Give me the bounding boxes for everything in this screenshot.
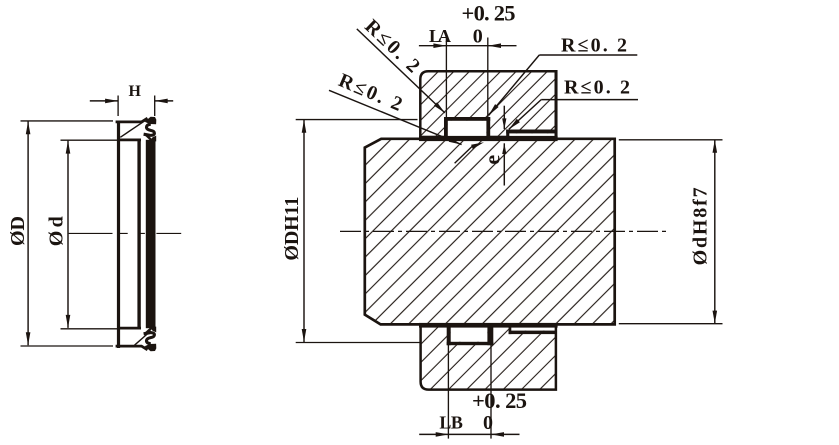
seal bottom cap (mirrored)	[116, 327, 157, 352]
roughness leader R3 underline	[539, 54, 637, 56]
seal top cap inner line	[118, 138, 141, 141]
roughness leader R3 arrowhead	[489, 104, 499, 115]
seal top cap lip beak	[145, 117, 157, 125]
bottom joint band	[419, 323, 558, 328]
roughness leader R2 arrowhead	[449, 138, 462, 145]
groove corner mark arrowhead	[471, 142, 484, 149]
dimension H left witness line	[117, 96, 119, 117]
dimension ØdH8f7 top arrowhead	[713, 140, 718, 153]
svg-text:R≤0. 2: R≤0. 2	[360, 15, 424, 77]
bottom gland block	[421, 326, 556, 390]
rod block	[365, 139, 615, 325]
dimension LA left arrowhead	[433, 43, 446, 48]
svg-text:LA: LA	[429, 26, 451, 46]
top joint band	[419, 136, 558, 141]
seal top cap lip S-curl	[144, 124, 155, 135]
dimension H line right segment	[155, 100, 174, 102]
dimension ØdH8f7 bottom arrowhead	[713, 311, 718, 324]
bottom gland groove floor line	[447, 342, 494, 345]
dimension LB right arrowhead	[491, 432, 504, 437]
dimension H left arrowhead	[105, 99, 118, 104]
top gland groove cavity	[448, 121, 487, 137]
bottom gland groove left wall	[447, 327, 451, 345]
top gland groove ceiling line	[444, 117, 490, 121]
dimension ØD bottom extension line	[21, 345, 114, 347]
dimension ØDH11 line	[303, 120, 305, 342]
dimension LB right extension line	[490, 344, 492, 439]
roughness leader R1 arrowhead	[434, 102, 445, 113]
dimension ØdH8f7 top extension line	[619, 139, 723, 141]
dimension LA line	[419, 45, 517, 47]
dimension LB left arrowhead	[436, 432, 449, 437]
svg-text:Ød: Ød	[46, 216, 68, 246]
dimension ØD top extension line	[21, 120, 114, 122]
dimension e upper line	[503, 106, 505, 129]
roughness leader R2	[329, 90, 462, 144]
groove corner mark line	[455, 146, 473, 163]
dimension Ød line	[67, 141, 69, 328]
seal bottom cap section line	[135, 331, 151, 345]
svg-text:ØdH8f7: ØdH8f7	[690, 187, 712, 265]
top gland block	[420, 71, 556, 137]
top gland step notch wall	[506, 130, 509, 138]
roughness leader R3 diagonal	[489, 55, 540, 116]
roughness leader R1	[357, 29, 445, 113]
dimension ØdH8f7 line	[714, 140, 716, 324]
svg-text:R≤0. 2: R≤0. 2	[335, 69, 405, 115]
svg-text:R≤0. 2: R≤0. 2	[564, 77, 630, 99]
dimension ØdH8f7 bottom extension line	[619, 323, 723, 325]
top gland groove right wall	[486, 117, 490, 137]
dimension ØD line	[27, 121, 29, 345]
dimension LA left extension line	[445, 38, 447, 119]
dimension ØDH11 bottom arrowhead	[302, 329, 307, 342]
dimension ØD top arrowhead	[26, 121, 31, 134]
svg-text:0: 0	[473, 25, 483, 47]
svg-text:+0. 25: +0. 25	[462, 1, 516, 26]
svg-text:e: e	[480, 155, 505, 165]
dimension H line left segment	[90, 100, 118, 102]
dimension Ød top extension line	[61, 139, 118, 141]
svg-text:H: H	[128, 83, 141, 100]
seal right wall bar	[146, 140, 156, 328]
dimension H right witness line	[154, 96, 156, 117]
svg-text:LB: LB	[439, 412, 463, 432]
seal top cap outer line	[116, 118, 148, 122]
dimension ØDH11 top arrowhead	[302, 120, 307, 133]
dimension e upper arrowhead	[502, 118, 506, 129]
dimension LB line	[419, 433, 519, 435]
seal top cap group	[116, 117, 157, 142]
seal top cap section line	[120, 121, 144, 137]
bottom gland step notch floor line	[509, 331, 556, 335]
dimension ØDH11 bottom extension line	[296, 342, 420, 344]
top gland groove left wall	[444, 117, 448, 137]
dimension Ød bottom arrowhead	[66, 315, 71, 328]
assembly centerline	[340, 230, 667, 232]
roughness leader R4 diagonal	[509, 100, 541, 130]
roughness leader R4 arrowhead	[509, 119, 520, 130]
top gland step notch ceiling line	[506, 130, 556, 134]
svg-text:+0. 25: +0. 25	[472, 388, 527, 413]
top gland right edge	[555, 71, 558, 137]
dimension ØDH11 top extension line	[296, 119, 418, 121]
bottom gland step notch cavity	[511, 327, 554, 331]
seal top cap lip tail	[146, 135, 153, 141]
bottom gland step notch wall	[509, 327, 512, 334]
svg-text:ØD: ØD	[7, 216, 29, 246]
dimension LA right arrowhead	[488, 43, 501, 48]
dimension Ød top arrowhead	[66, 141, 71, 154]
svg-text:ØDH11: ØDH11	[281, 197, 303, 261]
svg-text:R≤0. 2: R≤0. 2	[561, 35, 627, 57]
dimension LA right extension line	[487, 38, 489, 119]
dimension e lower line	[503, 143, 505, 185]
dimension e lower arrowhead	[502, 143, 506, 154]
top gland step notch cavity	[509, 133, 554, 137]
roughness leader R4 underline	[541, 99, 638, 101]
seal centerline	[69, 232, 182, 234]
dimension Ød bottom extension line	[61, 328, 118, 330]
dimension LB left extension line	[447, 344, 449, 439]
seal top cap lip corner fill	[150, 136, 156, 142]
dimension H right arrowhead	[155, 99, 168, 104]
seal left wall	[117, 121, 120, 348]
dimension ØD bottom arrowhead	[26, 332, 31, 345]
bottom gland groove right wall	[487, 327, 493, 345]
seal middle wall	[137, 140, 140, 329]
bottom gland groove cavity	[451, 327, 488, 342]
